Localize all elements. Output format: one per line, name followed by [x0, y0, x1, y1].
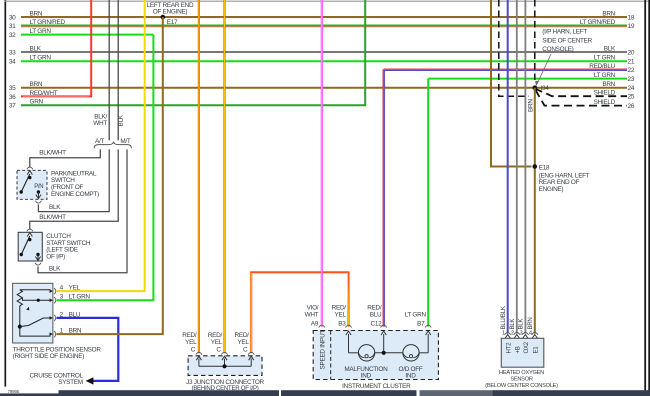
svg-text:(I/P HARN, LEFT: (I/P HARN, LEFT — [542, 29, 587, 36]
svg-text:35: 35 — [9, 85, 16, 92]
wire 34-21 LT GRN — [21, 60, 627, 62]
svg-text:BLK: BLK — [49, 204, 61, 211]
wire 35 label BRN — [30, 81, 43, 88]
svg-text:37: 37 — [9, 103, 16, 110]
svg-text:22: 22 — [628, 67, 635, 74]
J3 junction connector box — [188, 356, 262, 376]
svg-text:1: 1 — [502, 331, 505, 337]
J3 pin C1 label RED/YEL — [182, 332, 197, 346]
row number 19 — [628, 23, 635, 30]
svg-text:OF I/P): OF I/P) — [46, 253, 65, 260]
svg-text:3: 3 — [519, 331, 522, 337]
instrument cluster box — [313, 331, 438, 380]
svg-text:BLK/WHT: BLK/WHT — [39, 149, 66, 156]
cluster pin A9 label — [305, 305, 319, 319]
J3 pin C2 label RED/YEL — [208, 332, 223, 346]
wire RED/YEL vertical 2 — [223, 0, 225, 353]
svg-text:BRN: BRN — [527, 99, 534, 112]
wire 37 GRN — [21, 0, 365, 105]
TPS internal wiring — [18, 290, 51, 336]
wire BLK vertical O2 pin3 — [524, 0, 526, 334]
wire 22 label RED/BLU — [589, 63, 615, 70]
heated oxygen sensor label — [485, 370, 558, 389]
connector I34 — [533, 85, 550, 92]
label SPEED INPUT rotated — [319, 330, 326, 370]
wire 33-20 BLK — [21, 51, 627, 53]
wire BLK/WHT to P/N switch — [30, 149, 101, 167]
svg-text:32: 32 — [9, 32, 16, 39]
wire 37 label GRN — [30, 99, 44, 106]
label A/T — [95, 138, 104, 145]
svg-text:A9: A9 — [311, 321, 319, 328]
svg-text:(BELOW CENTER CONSOLE): (BELOW CENTER CONSOLE) — [485, 383, 558, 389]
svg-text:M/T: M/T — [120, 138, 131, 145]
svg-text:P/N: P/N — [34, 184, 43, 190]
svg-text:19: 19 — [628, 23, 635, 30]
park/neutral switch P/N — [17, 167, 47, 203]
J3 pin C3 label RED/YEL — [235, 332, 250, 346]
svg-text:IND: IND — [361, 373, 372, 380]
wire RED/YEL junction to cluster — [251, 272, 348, 353]
TPS pin 3 — [50, 294, 91, 304]
svg-text:21: 21 — [628, 59, 635, 66]
wire RED/BLU vertical — [383, 69, 384, 326]
O2 wire label BLK rotated — [509, 319, 516, 330]
row number 31 — [9, 23, 16, 30]
wire BLK/WHT vertical upper — [108, 0, 110, 140]
O2 wire label BLK rotated — [518, 319, 525, 330]
label (left rear end of engine) — [147, 2, 194, 15]
svg-text:BLK: BLK — [49, 265, 61, 272]
svg-text:C12: C12 — [371, 321, 383, 328]
svg-text:YEL: YEL — [185, 339, 197, 346]
svg-text:CONSOLE): CONSOLE) — [542, 46, 573, 53]
svg-text:BLU/BLK: BLU/BLK — [500, 306, 507, 329]
svg-text:33: 33 — [9, 49, 16, 56]
instrument cluster label — [342, 383, 411, 390]
wire 25 SHIELD — [535, 89, 627, 97]
svg-text:79995: 79995 — [8, 389, 20, 394]
bottom title bar — [0, 390, 650, 396]
A/T M/T brace — [94, 142, 131, 149]
wire 25 label SHIELD — [594, 90, 616, 97]
J3 pin C3 — [243, 347, 254, 367]
svg-text:IND: IND — [405, 373, 416, 380]
svg-text:BLK: BLK — [509, 319, 516, 330]
O/D off indicator bulb — [403, 345, 419, 361]
svg-text:(RIGHT SIDE OF ENGINE): (RIGHT SIDE OF ENGINE) — [13, 353, 85, 360]
svg-text:26: 26 — [628, 103, 635, 110]
cluster pin B3 label — [332, 305, 347, 319]
svg-text:B7: B7 — [417, 321, 425, 328]
label BLK/WHT — [39, 149, 66, 156]
O2 wire label BLU/BLK rotated — [500, 306, 507, 329]
wire BLK from clutch switch — [38, 149, 127, 272]
wire YEL — [57, 0, 145, 291]
page right border — [645, 0, 649, 396]
wire 18 label BRN — [602, 10, 615, 17]
wire VIO/WHT vertical — [321, 0, 323, 327]
O2 sensor pin 1 HT2 — [502, 331, 513, 354]
svg-text:30: 30 — [9, 14, 16, 21]
label BLK/WHT 2 — [39, 214, 66, 221]
svg-text:2: 2 — [511, 331, 514, 337]
row number 20 — [628, 49, 635, 56]
svg-text:31: 31 — [9, 23, 16, 30]
malfunction indicator bulb — [358, 345, 374, 361]
throttle position sensor box — [13, 283, 53, 343]
svg-text:SYSTEM: SYSTEM — [58, 379, 83, 386]
svg-text:B3: B3 — [338, 321, 346, 328]
row number 26 — [628, 103, 635, 110]
svg-text:HEATED OXYGEN: HEATED OXYGEN — [499, 370, 544, 376]
ground point E17 — [161, 15, 179, 26]
svg-text:+B: +B — [514, 346, 521, 353]
cruise control system label — [30, 372, 84, 386]
svg-text:SPEED INPUT: SPEED INPUT — [319, 330, 326, 370]
svg-text:20: 20 — [628, 49, 635, 56]
TPS pin 1 — [50, 328, 82, 338]
E18 callout text — [539, 172, 590, 193]
TPS pin 2 — [50, 311, 81, 321]
wire 33 label BLK — [30, 45, 42, 52]
cruise control arrow — [86, 377, 94, 384]
svg-text:25: 25 — [628, 94, 635, 101]
wire 31-19 LT GRN/RED — [21, 25, 627, 26]
wire 34 label LT GRN — [30, 55, 52, 62]
wire LT GRN vertical to B7 — [427, 79, 429, 327]
J3 pin C1 — [191, 347, 202, 367]
wire 32 LT GRN — [21, 34, 153, 36]
wire BLU/BLK vertical — [507, 0, 509, 334]
cluster pin B3 — [338, 321, 351, 353]
wire 24 label BRN — [602, 81, 615, 88]
wire 30 label BRN — [30, 10, 43, 17]
row number 25 — [628, 94, 635, 101]
wire 23 LT GRN — [428, 78, 627, 80]
svg-text:A/T: A/T — [95, 138, 104, 145]
clutch start switch label — [46, 233, 91, 260]
svg-text:I34: I34 — [541, 85, 550, 92]
svg-text:24: 24 — [628, 85, 635, 92]
svg-text:ENGINE COMPT): ENGINE COMPT) — [51, 191, 99, 198]
wire 30-18 BRN — [21, 16, 627, 18]
wire RED/YEL vertical 1 — [198, 0, 200, 353]
row number 24 — [628, 85, 635, 92]
O2 sensor pin 2 +B — [511, 331, 522, 354]
svg-text:OF ENGINE): OF ENGINE) — [153, 8, 188, 15]
cluster pin C12 — [371, 321, 387, 353]
heated oxygen sensor box — [501, 338, 544, 367]
wire 21 label LT GRN — [594, 55, 616, 62]
wire 20 label BLK — [604, 45, 616, 52]
cluster pin B7 label — [405, 311, 427, 318]
svg-text:SENSOR: SENSOR — [510, 376, 533, 382]
svg-text:36: 36 — [9, 94, 16, 101]
O2 wire label BRN rotated — [527, 317, 534, 329]
row number 34 — [9, 59, 16, 66]
wire 35-24 BRN — [21, 87, 627, 89]
wire 32 label LT GRN — [30, 28, 52, 35]
svg-text:BLK: BLK — [118, 114, 125, 126]
I34 callout text — [542, 29, 592, 54]
wire BLK from P/N switch — [38, 149, 109, 211]
svg-text:ENGINE): ENGINE) — [539, 186, 564, 193]
label BLK upper rotated — [118, 114, 125, 126]
cluster pin B7 — [417, 321, 431, 353]
label M/T — [120, 138, 131, 145]
svg-text:OX2: OX2 — [523, 341, 530, 353]
page left border — [4, 0, 6, 387]
page top border — [5, 0, 650, 2]
wire BLK vertical upper — [117, 0, 119, 140]
O2 sensor pin 4 E1 — [529, 331, 540, 354]
svg-text:18: 18 — [628, 14, 635, 21]
label BLK/WHT upper — [93, 113, 107, 127]
svg-text:23: 23 — [628, 76, 635, 83]
wire BRN I34 to oxygen sensor — [534, 88, 536, 334]
svg-text:BRN: BRN — [527, 317, 534, 329]
row number 21 — [628, 59, 635, 66]
svg-text:34: 34 — [9, 59, 16, 66]
svg-text:BLK: BLK — [518, 319, 525, 330]
svg-text:YEL: YEL — [211, 339, 223, 346]
svg-text:E18: E18 — [539, 165, 550, 172]
row number 22 — [628, 67, 635, 74]
label BRN rotated — [527, 99, 534, 112]
cluster internal bus — [349, 351, 429, 355]
wire 23 label LT GRN — [594, 72, 616, 79]
wire 31 label LT GRN/RED — [30, 19, 66, 26]
svg-text:INSTRUMENT CLUSTER: INSTRUMENT CLUSTER — [342, 383, 411, 390]
cluster pin A9 — [311, 321, 325, 328]
svg-text:WHT: WHT — [305, 311, 319, 318]
wire BLK vertical O2 pin2 — [516, 0, 518, 334]
row number 33 — [9, 49, 16, 56]
TPS resistor — [17, 290, 22, 306]
svg-text:SIDE OF CENTER: SIDE OF CENTER — [542, 37, 592, 44]
label BLK 2 — [49, 265, 61, 272]
wire 26 label SHIELD — [594, 99, 616, 106]
wire BRN from TPS to E17 — [57, 17, 163, 334]
I/P harness boundary dashed — [499, 0, 535, 96]
svg-text:E1: E1 — [532, 346, 539, 354]
throttle position sensor label — [13, 346, 102, 360]
speed input divider — [330, 331, 332, 380]
TPS pin 4 — [50, 285, 81, 295]
wire BLU — [57, 318, 119, 381]
svg-text:YEL: YEL — [237, 339, 249, 346]
svg-text:LT GRN: LT GRN — [405, 311, 427, 318]
svg-text:C: C — [216, 347, 221, 354]
row number 37 — [9, 103, 16, 110]
svg-text:C: C — [243, 347, 248, 354]
row number 30 — [9, 14, 16, 21]
wire BRN vertical to E18 — [491, 0, 532, 167]
svg-text:BLK/WHT: BLK/WHT — [39, 214, 66, 221]
J3 internal bus — [199, 364, 251, 368]
row number 18 — [628, 14, 635, 21]
row number 35 — [9, 85, 16, 92]
wire 26 SHIELD — [536, 90, 628, 106]
O2 sensor pin 3 OX2 — [519, 331, 530, 354]
cluster pin C12 label — [367, 305, 382, 319]
J3 pin C2 — [216, 347, 227, 367]
svg-text:C: C — [191, 347, 196, 354]
malfunction ind label — [344, 366, 388, 380]
clutch start switch — [18, 229, 42, 265]
svg-text:HT2: HT2 — [505, 342, 512, 354]
svg-text:WHT: WHT — [93, 120, 107, 127]
wire 36 RED/WHT — [21, 0, 91, 96]
wire 36 label RED/WHT — [30, 90, 58, 97]
wire LT GRN to TPS — [57, 35, 154, 301]
wire 19 label LT GRN/RED — [580, 19, 616, 26]
drawing number 79995 — [8, 389, 20, 394]
ground point E18 — [533, 164, 550, 171]
row number 32 — [9, 32, 16, 39]
label BLK — [49, 204, 61, 211]
J3 junction connector label — [186, 379, 264, 392]
I34 callout pointer — [535, 54, 551, 86]
svg-text:BLU: BLU — [370, 311, 382, 318]
wire 22 RED/BLU — [384, 69, 627, 70]
wire BLK/WHT to clutch switch — [30, 149, 118, 229]
O/D off ind label — [399, 366, 423, 380]
row number 23 — [628, 76, 635, 83]
park/neutral switch label — [51, 170, 99, 197]
row number 36 — [9, 94, 16, 101]
svg-text:YEL: YEL — [335, 311, 347, 318]
